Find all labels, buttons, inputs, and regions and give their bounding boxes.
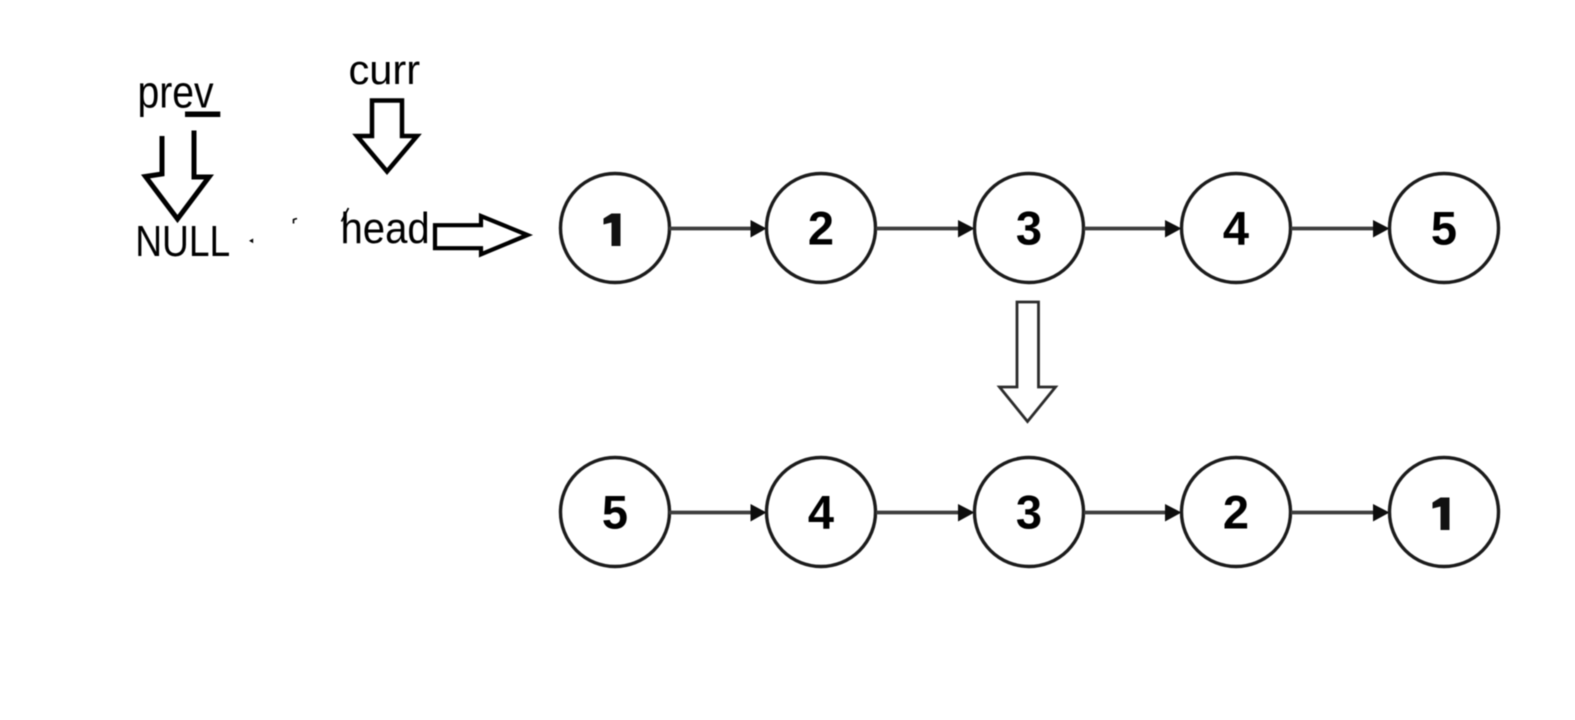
arrow 1 to 2 — [669, 220, 767, 238]
svg-text:3: 3 — [1016, 486, 1042, 539]
label NULL — [135, 216, 230, 266]
svg-text:5: 5 — [602, 486, 628, 539]
curr down arrow — [357, 101, 417, 172]
svg-text:4: 4 — [808, 486, 834, 539]
svg-text:head: head — [341, 203, 430, 252]
svg-text:2: 2 — [808, 202, 834, 255]
arrow 2 to 1 (bottom) — [1291, 504, 1390, 522]
svg-text:prev: prev — [138, 67, 214, 117]
node 2 (bottom list) — [1182, 458, 1291, 567]
svg-text:5: 5 — [1431, 202, 1457, 255]
node 3 (top list) — [975, 174, 1084, 283]
arrow 4 to 3 (bottom) — [876, 504, 975, 522]
node 2 (top list) — [767, 174, 876, 283]
transform down arrow (center) — [1000, 302, 1056, 422]
node 4 (top list) — [1182, 174, 1291, 283]
label prev — [138, 67, 214, 117]
svg-text:curr: curr — [349, 46, 421, 93]
node 5 (top list) — [1390, 174, 1499, 283]
node 1 (bottom list) — [1390, 458, 1499, 567]
arrow 3 to 4 — [1084, 220, 1182, 238]
node 3 (bottom list) — [975, 458, 1084, 567]
speck mark r-shape — [294, 219, 298, 224]
svg-text:NULL: NULL — [135, 216, 230, 266]
prev down arrow — [146, 131, 210, 220]
node 4 (bottom list) — [767, 458, 876, 567]
label head — [341, 203, 430, 252]
underline under prev — [185, 112, 220, 118]
label curr — [349, 46, 421, 93]
svg-text:3: 3 — [1016, 202, 1042, 255]
arrow 3 to 2 (bottom) — [1084, 504, 1182, 522]
svg-text:4: 4 — [1223, 202, 1249, 255]
head right arrow — [435, 216, 528, 254]
tick above head — [342, 208, 349, 222]
speck near NULL — [249, 239, 253, 244]
svg-text:2: 2 — [1223, 486, 1249, 539]
arrow 5 to 4 (bottom) — [669, 504, 767, 522]
arrow 4 to 5 — [1291, 220, 1390, 238]
arrow 2 to 3 — [876, 220, 975, 238]
node 5 (bottom list) — [561, 458, 670, 567]
node 1 (top list) — [561, 174, 670, 283]
